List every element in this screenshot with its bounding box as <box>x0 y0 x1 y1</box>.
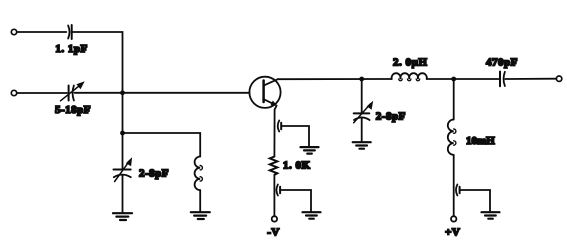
wire <box>17 92 67 94</box>
wire <box>427 78 500 80</box>
svg-text:2-8pF: 2-8pF <box>376 111 406 123</box>
wire <box>361 79 363 113</box>
capacitor C8 (supply bypass) <box>456 185 457 196</box>
wire <box>280 190 311 211</box>
capacitor C5 (emitter bypass) <box>278 121 279 132</box>
capacitor C4 2-8pF (variable) <box>354 112 370 114</box>
ground <box>113 213 132 220</box>
svg-text:2-8pF: 2-8pF <box>139 168 169 180</box>
wire <box>17 31 66 33</box>
output terminal <box>556 76 561 81</box>
node junction <box>359 77 364 82</box>
capacitor C7 470pF <box>499 72 501 87</box>
wire <box>123 133 201 157</box>
svg-text:5-18pF: 5-18pF <box>55 104 91 116</box>
ground <box>353 142 371 149</box>
capacitor C1 1.1pF <box>68 26 69 39</box>
wire <box>453 155 455 216</box>
svg-text:2. 0µH: 2. 0µH <box>393 57 427 69</box>
ground <box>191 212 210 219</box>
ground <box>303 212 321 219</box>
node junction <box>451 77 456 82</box>
wire <box>75 92 250 94</box>
input terminal (top) <box>11 29 16 34</box>
capacitor C6 (bypass to ground) <box>276 185 277 196</box>
svg-text:470pF: 470pF <box>486 57 518 69</box>
svg-text:1. 1pF: 1. 1pF <box>55 43 87 55</box>
capacitor C2 5-18pF (variable) <box>68 86 70 101</box>
capacitor C3 2-8pF (variable) <box>114 169 131 171</box>
wire <box>453 79 455 120</box>
svg-text:-V: -V <box>267 226 280 238</box>
svg-text:1. 0K: 1. 0K <box>283 160 311 172</box>
ground <box>482 212 500 219</box>
svg-text:+V: +V <box>445 226 460 238</box>
node junction (branch to coil) <box>120 131 125 136</box>
wire <box>273 175 275 216</box>
svg-text:10mH: 10mH <box>466 135 495 147</box>
wire <box>122 175 124 212</box>
node junction (input) <box>120 90 125 95</box>
inductor L2 2.0uH <box>392 73 427 79</box>
inductor L1 (to ground) <box>195 157 201 191</box>
wire <box>361 118 363 141</box>
terminal +V <box>451 216 456 221</box>
wire <box>281 126 309 146</box>
wire <box>122 93 124 170</box>
inductor L3 10mH <box>448 120 454 155</box>
terminal -V <box>272 216 277 221</box>
wire <box>505 78 556 80</box>
transistor Q1 <box>249 77 280 108</box>
wire (emitter) <box>274 106 276 157</box>
ground <box>301 147 319 154</box>
wire <box>199 190 201 211</box>
input terminal (bottom) <box>11 90 16 95</box>
resistor R1 1.0K <box>270 157 278 175</box>
wire <box>460 190 490 211</box>
wire (collector line) <box>278 78 392 80</box>
wire <box>72 32 122 93</box>
